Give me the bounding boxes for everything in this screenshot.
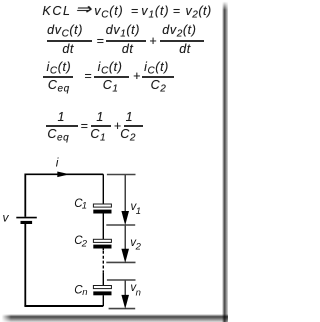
svg-text:2: 2 <box>135 242 142 253</box>
svg-text:2: 2 <box>81 238 88 249</box>
svg-text:1: 1 <box>82 200 87 211</box>
svg-text:i: i <box>56 155 59 169</box>
svg-text:v: v <box>3 210 10 224</box>
svg-text:n: n <box>82 287 87 298</box>
svg-text:n: n <box>136 287 141 298</box>
svg-text:1: 1 <box>136 206 141 217</box>
